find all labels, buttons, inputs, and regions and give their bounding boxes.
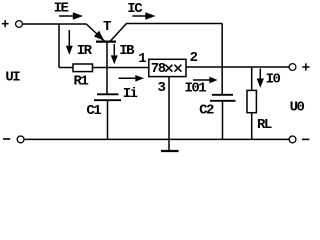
input terminal circle [16, 21, 23, 28]
current arrow Ii [119, 75, 145, 82]
svg-text:IC: IC [127, 1, 143, 17]
current arrow IE [59, 12, 83, 19]
wire collector to output drop [126, 23, 222, 25]
capacitor C1 [94, 94, 121, 100]
wire drop collector to output node [221, 24, 223, 95]
svg-text:R1: R1 [74, 73, 89, 89]
output terminal plus sign [302, 63, 309, 70]
current arrow IB [111, 44, 118, 64]
wire C2 to bottom rail [222, 102, 224, 140]
svg-text:UI: UI [5, 70, 20, 86]
transistor T [86, 24, 126, 42]
wire R1 to regulator pin 1 [93, 67, 149, 69]
wire transistor base down to node [106, 43, 108, 94]
resistor RL [247, 90, 256, 112]
current arrow IR [66, 30, 73, 55]
current arrow IC [132, 12, 155, 19]
svg-text:Ii: Ii [123, 86, 138, 102]
bottom rail wire [24, 138, 289, 140]
bottom left terminal circle [17, 136, 24, 143]
svg-text:C2: C2 [199, 103, 214, 119]
wire drop from input to R1 [58, 24, 60, 68]
svg-text:IB: IB [119, 43, 135, 59]
wire C1 to bottom rail [107, 101, 109, 139]
bottom right terminal circle [289, 136, 296, 143]
capacitor C2 [210, 95, 236, 101]
svg-text:C1: C1 [86, 103, 101, 119]
ground bar [161, 150, 179, 152]
bottom rail minus sign left [3, 138, 10, 140]
svg-text:2: 2 [190, 50, 198, 66]
svg-text:IR: IR [77, 43, 93, 59]
wire RL to bottom rail [251, 113, 253, 140]
svg-text:U0: U0 [290, 99, 305, 115]
wire regulator pin 3 to ground [168, 77, 170, 151]
svg-text:3: 3 [158, 80, 166, 96]
svg-text:78: 78 [151, 61, 166, 77]
regulator value label 78xx [151, 61, 182, 77]
svg-text:RL: RL [257, 117, 272, 133]
wire regulator pin 2 to output terminal [186, 66, 289, 68]
regulator U1 78xx box [149, 59, 186, 76]
svg-text:T: T [103, 19, 111, 35]
wire R1 left [59, 67, 73, 69]
svg-text:I0: I0 [266, 72, 281, 88]
output terminal circle [289, 64, 296, 71]
svg-text:1: 1 [138, 51, 146, 67]
current arrow I0 [257, 69, 264, 88]
svg-text:I01: I01 [185, 81, 207, 97]
wire output to RL [251, 67, 253, 90]
resistor R1 [73, 64, 93, 72]
bottom rail minus sign right [302, 138, 309, 140]
svg-text:IE: IE [54, 1, 69, 17]
wire input top to emitter [22, 23, 86, 25]
input terminal plus sign [2, 20, 9, 27]
current arrow I01 [193, 77, 218, 84]
